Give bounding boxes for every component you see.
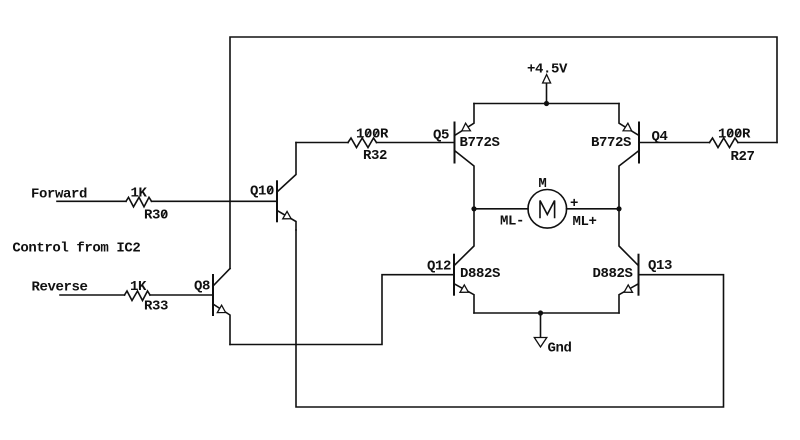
wire R32 to Q5 base: [377, 142, 455, 144]
motor M: [528, 190, 567, 229]
svg-text:1K: 1K: [130, 279, 147, 295]
wire Q10 collector to R32: [296, 142, 348, 144]
resistor R27: [710, 138, 739, 148]
transistor Q12: [454, 209, 474, 313]
wire motor left lead: [474, 208, 528, 210]
svg-text:R32: R32: [363, 148, 387, 164]
transistor Q4: [619, 104, 639, 209]
svg-text:R30: R30: [144, 207, 168, 223]
svg-text:Control from IC2: Control from IC2: [12, 241, 140, 257]
svg-text:B772S: B772S: [460, 135, 500, 151]
svg-text:Q10: Q10: [250, 183, 274, 199]
wire Q4 base to R27: [639, 142, 710, 144]
svg-text:Q13: Q13: [648, 258, 672, 274]
svg-text:+4.5V: +4.5V: [527, 62, 568, 78]
resistor R33: [125, 291, 151, 301]
resistor R32: [348, 138, 377, 148]
wire motor right lead: [567, 208, 620, 210]
svg-text:Reverse: Reverse: [32, 280, 88, 296]
svg-text:100R: 100R: [718, 127, 751, 143]
transistor Q10: [277, 143, 296, 231]
wire Q8 emitter to Q12 base: [230, 275, 454, 345]
node motor right junction: [616, 206, 621, 211]
svg-text:D882S: D882S: [593, 266, 633, 282]
node ground junction: [538, 310, 543, 315]
wire Reverse input to R33: [60, 294, 125, 296]
svg-text:Q12: Q12: [427, 259, 451, 275]
svg-text:1K: 1K: [131, 186, 148, 202]
svg-text:D882S: D882S: [460, 266, 500, 282]
node motor left junction: [471, 206, 476, 211]
node +4.5V junction: [544, 101, 549, 106]
svg-text:R33: R33: [144, 299, 168, 315]
power +4.5V symbol: [543, 75, 551, 104]
slashed zero marks: [162, 130, 740, 218]
svg-text:M: M: [538, 176, 546, 192]
svg-text:Q5: Q5: [433, 128, 449, 144]
transistor Q13: [619, 209, 639, 313]
svg-text:100R: 100R: [356, 127, 389, 143]
ground Gnd symbol: [534, 313, 547, 347]
wire ground rail between Q12 and Q13 emitters: [474, 312, 619, 314]
transistor Q8: [213, 269, 230, 345]
svg-text:Gnd: Gnd: [548, 341, 572, 357]
transistor Q5: [455, 104, 475, 209]
wire Forward input to R30: [57, 200, 126, 202]
svg-text:+: +: [570, 196, 578, 212]
svg-text:ML+: ML+: [573, 214, 597, 230]
svg-text:Forward: Forward: [31, 187, 87, 203]
wire R33 to Q8 base: [150, 294, 213, 296]
wire +4.5V rail between Q5 and Q4 emitters: [474, 103, 619, 105]
svg-text:ML-: ML-: [500, 214, 524, 230]
svg-text:R27: R27: [731, 149, 755, 165]
wire R27 to top rail: [738, 142, 777, 144]
svg-text:B772S: B772S: [591, 135, 631, 151]
wire Q10 emitter to Q13 base (bottom run): [296, 230, 724, 407]
wire R30 to Q10 base: [152, 200, 278, 202]
svg-text:Q8: Q8: [194, 278, 210, 294]
resistor R30: [126, 197, 152, 207]
wire top rail from Q8 collector to R27 net: [230, 37, 777, 269]
